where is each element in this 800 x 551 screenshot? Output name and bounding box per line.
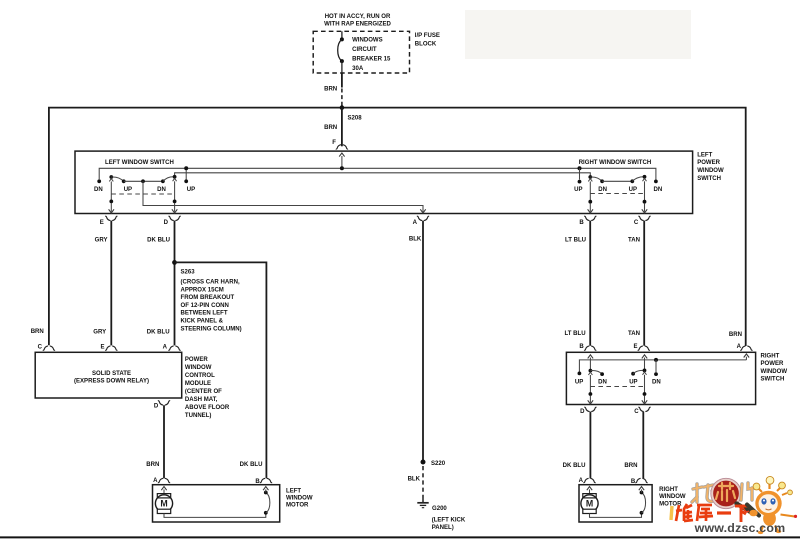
svg-text:TUNNEL): TUNNEL) <box>185 413 212 419</box>
svg-text:DN: DN <box>598 187 607 193</box>
svg-text:C: C <box>634 409 639 415</box>
mechanical link (dashed) right switch <box>590 386 644 388</box>
left power window switch box <box>75 151 693 213</box>
svg-text:(LEFT KICK: (LEFT KICK <box>432 517 466 523</box>
wire BLK (S220 to G200, dashed) <box>422 466 424 498</box>
connector F symbol <box>336 145 341 149</box>
background panel (scan artifact) <box>465 10 691 59</box>
connector pin B (master switch) <box>584 216 589 220</box>
wire BRN from circuit breaker (dashed at boundary) <box>341 73 343 88</box>
svg-text:DK BLU: DK BLU <box>147 329 170 335</box>
right switch pole 1 (B to D) <box>588 355 593 359</box>
connector pin E (module) <box>105 346 110 350</box>
svg-text:BRN: BRN <box>324 125 337 131</box>
svg-text:BRN: BRN <box>624 463 637 469</box>
right switch pole 2 (E to C) <box>642 355 647 359</box>
wire BLK (A to S220) <box>422 221 424 462</box>
svg-text:DN: DN <box>157 187 166 193</box>
svg-text:TAN: TAN <box>628 237 640 243</box>
svg-text:(CROSS CAR HARN,: (CROSS CAR HARN, <box>181 280 240 286</box>
svg-text:(CENTER OF: (CENTER OF <box>185 389 222 395</box>
svg-text:MODULE: MODULE <box>185 381 211 387</box>
connector pin C (master switch) <box>638 216 643 220</box>
circuit breaker CB (WINDOWS 30A) <box>341 31 343 39</box>
motor M1 (left window) <box>161 487 166 491</box>
connector pin A (master switch) <box>417 216 422 220</box>
svg-text:LEFT: LEFT <box>286 489 301 495</box>
svg-text:M: M <box>586 499 593 509</box>
wire TAN (master C to remote E) <box>643 221 645 346</box>
svg-text:STEERING COLUMN): STEERING COLUMN) <box>181 326 242 332</box>
svg-text:RIGHT WINDOW SWITCH: RIGHT WINDOW SWITCH <box>579 160 652 166</box>
svg-text:DK BLU: DK BLU <box>147 237 170 243</box>
svg-text:C: C <box>634 220 639 226</box>
wire DK BLU branch (S263 to left motor B) <box>175 262 267 478</box>
node S263 <box>172 260 177 265</box>
connector pin B (left motor) <box>260 478 265 482</box>
svg-text:PANEL): PANEL) <box>432 525 454 531</box>
svg-text:DK BLU: DK BLU <box>240 462 263 468</box>
power window control module box <box>35 352 182 398</box>
svg-text:BETWEEN LEFT: BETWEEN LEFT <box>181 311 228 317</box>
svg-text:B: B <box>579 220 584 226</box>
svg-text:LT BLU: LT BLU <box>565 237 586 243</box>
wire inside left motor <box>164 513 266 518</box>
connector pin E (master switch) <box>105 216 110 220</box>
svg-text:A: A <box>163 344 168 350</box>
svg-text:BRN: BRN <box>729 332 742 338</box>
wire BRN (right switch C to right motor B) <box>642 412 644 479</box>
svg-text:BLK: BLK <box>408 477 421 483</box>
wire DK BLU (D to S263 to module) <box>174 221 176 346</box>
ground G200 <box>422 498 424 503</box>
connector pin B (right motor) <box>635 478 640 482</box>
I/P fuse block (dashed box) <box>313 31 409 73</box>
node feed junction (DN stub) <box>654 358 658 362</box>
svg-text:DN: DN <box>598 379 607 385</box>
svg-text:E: E <box>634 344 638 350</box>
svg-text:DK BLU: DK BLU <box>563 463 586 469</box>
node feed-bus junction (right switch UP stub) <box>578 166 582 170</box>
left switch pole 2 (to D) <box>173 175 177 179</box>
svg-text:WINDOW: WINDOW <box>286 496 313 502</box>
connector pin A (module) <box>168 346 173 350</box>
svg-text:S263: S263 <box>181 269 196 275</box>
right switch arm 2 (arc to UP) <box>633 370 644 373</box>
left switch pole 1 (to E) <box>109 175 113 179</box>
left switch UP contact 1 <box>122 179 126 183</box>
svg-text:B: B <box>255 479 260 485</box>
right switch UP stub contact <box>578 372 582 376</box>
svg-text:WINDOW: WINDOW <box>697 168 724 174</box>
svg-text:(EXPRESS DOWN RELAY): (EXPRESS DOWN RELAY) <box>74 379 149 385</box>
svg-text:UP: UP <box>629 379 637 385</box>
svg-text:TAN: TAN <box>628 331 640 337</box>
wire bus (BRN supply) <box>49 108 746 346</box>
svg-text:UP: UP <box>574 187 582 193</box>
wire internal link bus <box>175 173 591 177</box>
wire contact crossbar (master right) <box>602 180 632 182</box>
node S220 <box>421 460 426 465</box>
svg-text:B: B <box>579 344 584 350</box>
svg-text:B: B <box>631 479 636 485</box>
motor M2 (right window) <box>587 487 592 491</box>
right (master) switch DN stub <box>654 180 658 184</box>
svg-text:CONTROL: CONTROL <box>185 373 215 379</box>
svg-text:F: F <box>332 140 336 146</box>
connector pin A (right motor) <box>583 478 588 482</box>
svg-text:E: E <box>100 220 104 226</box>
svg-text:LT BLU: LT BLU <box>565 331 586 337</box>
svg-text:DASH MAT,: DASH MAT, <box>185 397 218 403</box>
right switch UP contact 2 <box>631 372 635 376</box>
connector pin D (module) <box>158 401 163 405</box>
node feed-bus junction (left sw UP stub) <box>184 166 188 170</box>
wire BRN (module D to left motor A) <box>163 405 165 478</box>
svg-text:APPROX 15CM: APPROX 15CM <box>181 287 224 293</box>
right (master) switch arm 1 (arc to DN) <box>590 177 602 181</box>
svg-text:D: D <box>154 404 159 410</box>
connector pin C (module) <box>43 346 48 350</box>
svg-text:RIGHT: RIGHT <box>761 353 780 359</box>
svg-text:GRY: GRY <box>93 329 106 335</box>
left window motor box <box>153 485 280 522</box>
svg-text:E: E <box>100 344 104 350</box>
right (master) switch DN contact <box>600 179 604 183</box>
svg-text:SWITCH: SWITCH <box>761 377 785 383</box>
bottom border line <box>0 536 800 538</box>
mechanical link (dashed) master right switch <box>590 193 644 195</box>
wire feed (A) inside right switch <box>579 360 746 373</box>
svg-text:A: A <box>153 478 158 484</box>
svg-text:POWER: POWER <box>185 357 208 363</box>
node S208 <box>340 105 345 110</box>
svg-text:www.dzsc.com: www.dzsc.com <box>694 521 786 535</box>
mechanical link (dashed) left switch <box>111 193 174 195</box>
connector pin A (right switch) <box>740 346 745 350</box>
left switch DN contact 2 <box>161 179 165 183</box>
right power window switch box <box>566 352 755 404</box>
right (master) switch pole 1 (to B) <box>588 175 592 179</box>
watermark: dzsc.com logo <box>686 474 800 510</box>
svg-text:POWER: POWER <box>761 361 784 367</box>
right switch arm 1 (arc to DN) <box>590 371 602 375</box>
connector pin E (right switch) <box>638 346 643 350</box>
connector pin C (right switch) <box>638 407 643 411</box>
svg-text:M: M <box>160 499 167 509</box>
svg-text:LEFT WINDOW SWITCH: LEFT WINDOW SWITCH <box>105 160 174 166</box>
svg-text:CIRCUIT: CIRCUIT <box>352 47 377 53</box>
svg-text:UP: UP <box>575 379 583 385</box>
connector pin A (left motor) <box>158 478 163 482</box>
right switch DN stub contact <box>654 372 658 376</box>
svg-text:BRN: BRN <box>324 86 337 92</box>
left switch DN contact (left) <box>97 179 101 183</box>
right (master) switch UP contact <box>630 179 634 183</box>
svg-text:LEFT: LEFT <box>697 152 712 158</box>
svg-text:30A: 30A <box>352 66 364 72</box>
arrow into F (feed) <box>339 153 344 157</box>
flex link (right motor B) <box>640 511 644 515</box>
svg-text:WINDOW: WINDOW <box>185 365 212 371</box>
svg-text:UP: UP <box>629 187 637 193</box>
left switch arm 2 (arc to DN) <box>163 177 175 182</box>
wire contact crossbar (to ground) <box>124 180 163 182</box>
svg-text:ABOVE FLOOR: ABOVE FLOOR <box>185 405 230 411</box>
left switch arm 1 (arc to UP) <box>111 177 123 181</box>
connector pin B (right switch) <box>584 346 589 350</box>
right (master) switch UP stub <box>578 180 582 184</box>
right (master) switch pole 2 (to C) <box>643 175 647 179</box>
svg-text:FROM BREAKOUT: FROM BREAKOUT <box>181 295 235 301</box>
wire ground link to pin A <box>143 181 423 212</box>
svg-text:G200: G200 <box>432 506 447 512</box>
svg-text:A: A <box>737 344 742 350</box>
svg-text:DN: DN <box>94 187 103 193</box>
svg-text:SOLID STATE: SOLID STATE <box>92 371 131 377</box>
svg-text:WITH RAP ENERGIZED: WITH RAP ENERGIZED <box>324 22 391 28</box>
svg-text:SWITCH: SWITCH <box>697 176 721 182</box>
svg-text:A: A <box>579 478 584 484</box>
svg-text:BRN: BRN <box>31 329 44 335</box>
wire DK BLU (right switch D to right motor A) <box>589 412 591 479</box>
svg-text:OF 12-PIN CONN: OF 12-PIN CONN <box>181 303 229 309</box>
svg-text:RIGHT: RIGHT <box>659 487 678 493</box>
wire internal feed bus <box>99 168 656 179</box>
svg-text:GRY: GRY <box>95 237 108 243</box>
right (master) switch arm 2 (arc to UP) <box>632 177 644 182</box>
svg-text:DN: DN <box>652 379 661 385</box>
svg-text:D: D <box>580 409 585 415</box>
svg-text:A: A <box>413 220 418 226</box>
wire LT BLU (master B to remote B) <box>589 221 591 346</box>
svg-text:S220: S220 <box>431 461 446 467</box>
svg-text:C: C <box>38 344 43 350</box>
svg-text:MOTOR: MOTOR <box>286 503 309 509</box>
svg-text:BREAKER 15: BREAKER 15 <box>352 57 391 63</box>
svg-text:BLK: BLK <box>409 236 422 242</box>
svg-text:DN: DN <box>654 187 663 193</box>
svg-text:WINDOWS: WINDOWS <box>352 38 383 44</box>
svg-text:UP: UP <box>124 187 132 193</box>
connector pin D (right switch) <box>584 407 589 411</box>
flex link (left motor B) <box>264 511 268 515</box>
wire inside right motor <box>590 513 642 518</box>
svg-text:HOT IN ACCY, RUN OR: HOT IN ACCY, RUN OR <box>325 14 391 20</box>
svg-text:UP: UP <box>187 187 195 193</box>
node feed-bus junction at F <box>340 166 344 170</box>
svg-text:BLOCK: BLOCK <box>415 42 437 48</box>
right switch DN contact 1 <box>600 372 604 376</box>
svg-text:BRN: BRN <box>146 462 159 468</box>
right window motor box <box>579 485 652 522</box>
svg-text:WINDOW: WINDOW <box>761 369 788 375</box>
left switch UP contact (right stub) <box>184 179 188 183</box>
svg-text:D: D <box>164 220 169 226</box>
node crossbar center <box>141 179 145 183</box>
svg-text:I/P FUSE: I/P FUSE <box>415 33 440 39</box>
connector pin D (master switch) <box>169 216 174 220</box>
svg-text:KICK PANEL &: KICK PANEL & <box>181 319 224 325</box>
svg-text:S208: S208 <box>348 115 363 121</box>
svg-text:WINDOW: WINDOW <box>659 494 686 500</box>
wire BRN from S208 to F <box>341 108 343 147</box>
wire GRY (E to module) <box>110 221 112 346</box>
svg-text:POWER: POWER <box>697 160 720 166</box>
